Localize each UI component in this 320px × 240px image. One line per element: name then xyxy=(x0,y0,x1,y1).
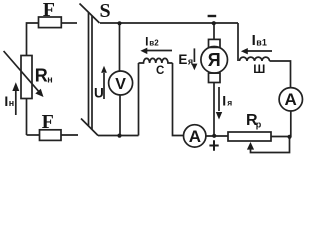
svg-text:U: U xyxy=(94,85,104,100)
svg-text:я: я xyxy=(227,98,232,108)
svg-text:F: F xyxy=(43,0,55,21)
svg-text:I: I xyxy=(222,93,226,109)
svg-text:Е: Е xyxy=(178,52,187,67)
svg-text:A: A xyxy=(189,127,201,146)
svg-text:н: н xyxy=(9,98,14,108)
svg-text:Я: Я xyxy=(208,50,221,70)
svg-text:р: р xyxy=(256,120,262,130)
svg-text:V: V xyxy=(115,76,126,93)
svg-text:н: н xyxy=(47,75,52,85)
svg-text:я: я xyxy=(188,57,193,67)
svg-text:R: R xyxy=(35,66,48,86)
svg-text:A: A xyxy=(284,90,296,109)
svg-text:I: I xyxy=(145,34,148,48)
svg-text:I: I xyxy=(252,32,256,49)
svg-text:в2: в2 xyxy=(149,38,159,47)
svg-text:F: F xyxy=(42,111,54,133)
svg-text:в1: в1 xyxy=(256,38,267,48)
svg-text:Ш: Ш xyxy=(253,62,265,76)
svg-text:S: S xyxy=(99,0,110,22)
svg-text:С: С xyxy=(156,65,164,77)
